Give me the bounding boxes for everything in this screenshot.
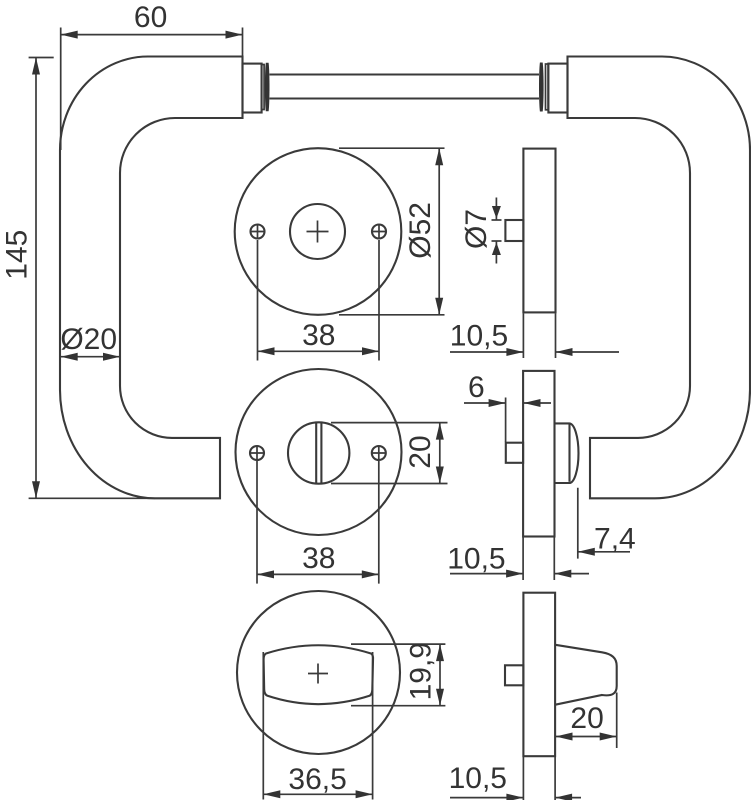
- rosette 2 outer circle: [236, 369, 402, 535]
- dimension Ø52: [339, 147, 445, 149]
- rosette 3 olive thumbturn: [264, 645, 373, 704]
- side view 2: handle hub: [555, 423, 579, 483]
- svg-text:Ø20: Ø20: [60, 323, 117, 356]
- dimension 36,5 rosette 3: [262, 652, 264, 800]
- dimension 145: [29, 57, 54, 59]
- dimension 20 rosette 2: [331, 422, 448, 424]
- lever handle right (front view, mirrored): [568, 57, 751, 499]
- spindle washer left: [262, 65, 265, 110]
- svg-text:145: 145: [0, 230, 33, 280]
- rosette 1 screw right: [372, 225, 386, 239]
- dimension 20 side view 3 knob: [616, 693, 618, 749]
- svg-text:20: 20: [570, 702, 603, 735]
- dimension 10,5 side view 1: [522, 314, 524, 359]
- spindle washer right: [546, 64, 549, 110]
- rosette 1 outer circle: [235, 148, 402, 315]
- svg-text:7,4: 7,4: [594, 523, 636, 556]
- svg-text:Ø7: Ø7: [460, 209, 493, 249]
- svg-text:6: 6: [468, 371, 485, 404]
- lever handle left (front view): [60, 57, 243, 499]
- side view 2: rose plate: [523, 371, 554, 537]
- rosette 2 screw left: [250, 446, 264, 460]
- rosette 1 centre cross: [307, 221, 329, 243]
- svg-text:36,5: 36,5: [288, 763, 346, 796]
- dimension 38 rosette 2: [256, 461, 258, 584]
- svg-text:19,9: 19,9: [405, 642, 438, 700]
- side view 1: fixing pin: [505, 220, 523, 241]
- side view 3: thumbturn knob: [555, 645, 616, 705]
- dimension 19,9 rosette 3: [351, 643, 445, 645]
- svg-text:Ø52: Ø52: [404, 202, 437, 259]
- rosette 1 screw left: [251, 225, 265, 239]
- rosette 3 outer circle: [237, 591, 400, 754]
- side view 2: fixing pin: [506, 443, 523, 463]
- dimension 10,5 side view 2: [522, 538, 524, 581]
- dimension 60: [60, 28, 62, 151]
- rosette 2 screw right: [372, 446, 386, 460]
- svg-text:10,5: 10,5: [449, 762, 507, 795]
- spindle rod: [270, 73, 540, 75]
- svg-text:38: 38: [302, 542, 335, 575]
- spindle neck step right: [548, 64, 567, 113]
- svg-text:60: 60: [134, 1, 167, 34]
- spindle collar left (dark): [265, 63, 270, 112]
- dimension 7,4 side view 2: [577, 488, 579, 559]
- svg-text:10,5: 10,5: [450, 320, 508, 353]
- svg-text:10,5: 10,5: [447, 543, 505, 576]
- dimension Ø7: [492, 219, 502, 221]
- rosette 1 handle hole: [290, 204, 345, 259]
- rosette 2 turn hole: [288, 422, 349, 483]
- side view 1: rose plate: [523, 149, 555, 313]
- spindle collar right (dark): [539, 63, 544, 112]
- rosette 3 centre cross: [308, 664, 328, 684]
- dimension 38 rosette 1: [257, 240, 259, 361]
- rosette 2 thumbturn bar: [315, 423, 317, 483]
- svg-text:20: 20: [404, 435, 437, 468]
- dimension 10,5 side view 3: [522, 757, 524, 800]
- spindle neck step left: [243, 64, 262, 113]
- dimension 6 side view 2: [505, 398, 507, 443]
- dimension Ø20: [61, 356, 120, 358]
- side view 3: rose plate: [523, 593, 555, 757]
- side view 3: fixing pin: [505, 665, 523, 685]
- svg-text:38: 38: [302, 319, 335, 352]
